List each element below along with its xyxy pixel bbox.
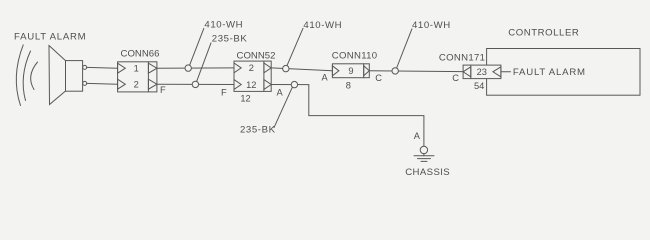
- svg-text:410-WH: 410-WH: [412, 20, 451, 31]
- svg-text:12: 12: [246, 80, 256, 90]
- svg-text:8: 8: [346, 80, 351, 90]
- svg-text:9: 9: [348, 66, 353, 76]
- svg-text:235-BK: 235-BK: [212, 34, 248, 45]
- svg-text:2: 2: [134, 79, 139, 89]
- svg-text:C: C: [375, 73, 382, 83]
- svg-text:1: 1: [134, 63, 139, 73]
- svg-text:410-WH: 410-WH: [303, 20, 342, 31]
- svg-text:54: 54: [474, 81, 484, 91]
- svg-text:2: 2: [249, 63, 254, 73]
- svg-text:235-BK: 235-BK: [240, 125, 276, 136]
- svg-text:410-WH: 410-WH: [204, 19, 243, 30]
- svg-text:A: A: [414, 131, 421, 141]
- svg-text:A: A: [277, 87, 284, 97]
- svg-text:F: F: [160, 85, 166, 95]
- svg-text:23: 23: [477, 67, 487, 77]
- svg-text:A: A: [322, 72, 329, 82]
- svg-text:CONN110: CONN110: [332, 50, 378, 61]
- svg-text:C: C: [452, 73, 459, 83]
- svg-text:F: F: [221, 88, 227, 98]
- svg-text:FAULT ALARM: FAULT ALARM: [513, 67, 586, 78]
- svg-text:FAULT ALARM: FAULT ALARM: [14, 32, 86, 43]
- svg-text:CONN171: CONN171: [439, 52, 485, 63]
- svg-text:CONN66: CONN66: [121, 48, 160, 59]
- svg-text:CHASSIS: CHASSIS: [405, 167, 450, 178]
- svg-text:12: 12: [240, 94, 250, 104]
- svg-text:CONTROLLER: CONTROLLER: [508, 28, 579, 39]
- svg-text:CONN52: CONN52: [237, 50, 276, 61]
